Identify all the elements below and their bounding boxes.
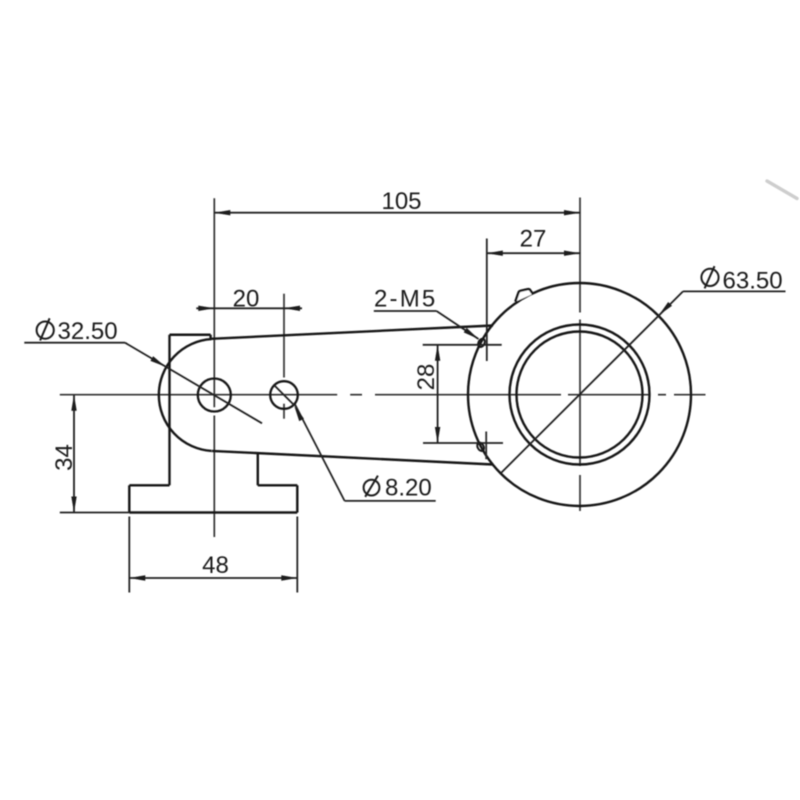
dimension 20: [196, 307, 302, 309]
tab on boss rim: [515, 289, 533, 302]
dimension 27: [487, 239, 580, 362]
svg-text:105: 105: [381, 188, 421, 215]
dimension 48: [129, 517, 297, 593]
centerline vertical left hole: [213, 198, 215, 537]
svg-text:28: 28: [413, 364, 440, 391]
watermark artifact top-right: [767, 181, 797, 199]
inner bore chamfer circle: [517, 332, 643, 458]
left pivot hole: [198, 379, 231, 412]
arm left end arc: [159, 339, 212, 451]
svg-text:20: 20: [233, 286, 260, 313]
plate top edge: [170, 334, 211, 336]
M5 bottom tick: [485, 432, 487, 460]
foot top left: [129, 484, 169, 486]
svg-text:63.50: 63.50: [723, 267, 783, 294]
small hole 8.20: [270, 381, 298, 409]
inner bore circle: [510, 325, 650, 465]
dimension 28: [423, 345, 503, 443]
foot bottom edge: [129, 511, 297, 513]
label diameter 8.20: [364, 474, 432, 501]
leader diameter 32.50: [24, 343, 262, 424]
M5 hole bottom: [476, 442, 485, 453]
svg-text:48: 48: [202, 552, 229, 579]
leader diameter 63.50: [501, 291, 786, 473]
dimension 105: [214, 212, 580, 214]
M5 hole top: [477, 338, 486, 349]
plate top step: [209, 335, 211, 339]
arm top edge line: [211, 326, 493, 339]
svg-text:2-M5: 2-M5: [374, 286, 437, 313]
plate left edge: [168, 335, 170, 486]
dimension 34: [60, 395, 130, 513]
foot top right: [258, 484, 298, 486]
centerline vertical big circle: [579, 198, 581, 512]
plate right edge: [257, 453, 259, 485]
outer circle boss: [468, 283, 691, 506]
centerline vertical small hole: [283, 294, 285, 419]
label diameter 63.50: [701, 266, 782, 294]
svg-text:34: 34: [51, 444, 78, 471]
label diameter 32.50: [37, 318, 118, 345]
leader 2-M5: [374, 311, 479, 339]
leader diameter 8.20: [274, 385, 436, 501]
centerline horizontal main axis: [60, 394, 706, 396]
foot left edge: [128, 485, 130, 512]
arm bottom edge line: [212, 451, 494, 465]
svg-text:32.50: 32.50: [58, 318, 118, 345]
svg-text:8.20: 8.20: [385, 474, 432, 501]
foot right edge: [296, 485, 298, 512]
svg-text:27: 27: [520, 226, 547, 253]
